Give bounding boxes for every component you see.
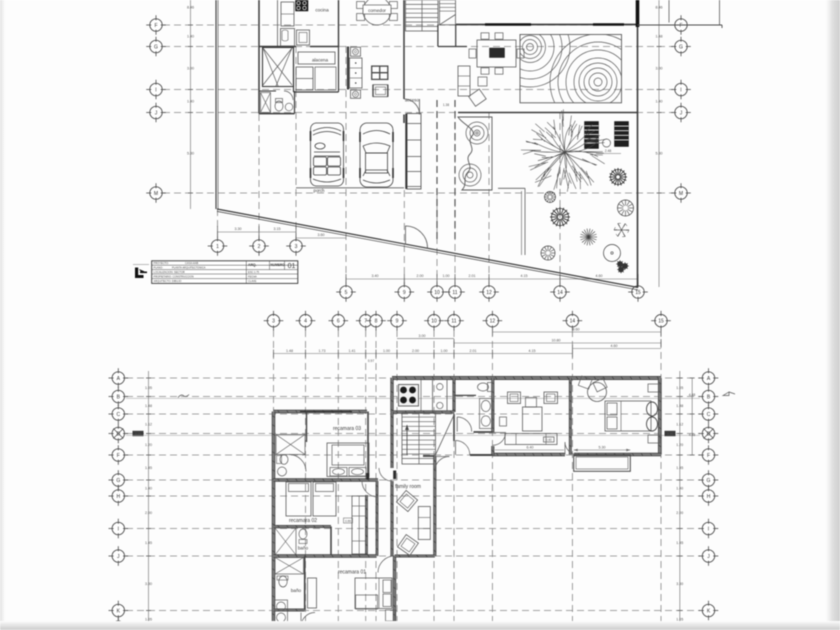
bottom plan grid row C line	[126, 413, 700, 415]
closet room wall	[263, 48, 294, 87]
armchairs right	[647, 402, 658, 416]
top plan grid column 3 line	[295, 46, 297, 240]
reca02 beds	[286, 482, 311, 516]
stairs diagonal	[436, 414, 455, 455]
svg-text:14: 14	[557, 290, 563, 296]
svg-text:NUMERO: NUMERO	[271, 263, 286, 267]
sun lounger 2	[615, 122, 629, 147]
top plan grid column 9 line	[403, 190, 405, 286]
top plan dimension 3-5	[296, 237, 346, 239]
svg-text:1: 1	[216, 244, 219, 250]
comedor label box	[363, 5, 391, 14]
bottom plan grid column 4 line	[305, 330, 307, 630]
reca03 bath door arc	[289, 455, 306, 472]
bano02 toilet	[299, 529, 307, 539]
bottom plan grid row F right bubble	[699, 445, 719, 465]
garden plant h	[614, 223, 629, 236]
svg-text:H: H	[707, 494, 711, 500]
svg-text:H: H	[116, 494, 120, 500]
0.40 box	[544, 437, 555, 442]
kitchen left wall	[391, 378, 394, 412]
hall door arc	[455, 441, 457, 455]
family room right wall	[434, 456, 436, 556]
top plan grid column 10 line	[436, 193, 438, 286]
svg-text:10.80: 10.80	[552, 339, 561, 343]
bottom plan grid row H line	[126, 495, 700, 497]
top plan bottom dimension line 5-15	[346, 278, 638, 280]
planter plant 2	[467, 172, 473, 178]
car convertible wheels	[310, 131, 312, 141]
roof outline top right	[668, 0, 670, 23]
bottom plan grid row A right bubble	[699, 368, 719, 388]
svg-text:2.00: 2.00	[412, 349, 419, 353]
svg-text:CASA-HAB: CASA-HAB	[185, 261, 199, 265]
svg-text:G: G	[116, 478, 120, 484]
bottom plan grid row C right bubble	[699, 404, 719, 424]
top plan grid column 2 bubble	[249, 236, 269, 256]
svg-text:D: D	[707, 431, 711, 437]
hall wall grid11 segment	[453, 414, 455, 441]
reca02 closet	[352, 496, 367, 554]
sofa side table bottom	[351, 90, 361, 98]
svg-text:PLANO:: PLANO:	[154, 265, 164, 269]
svg-text:4.48: 4.48	[689, 433, 696, 437]
top wall window segments	[485, 23, 531, 26]
bottom plan grid column 11 line	[453, 330, 455, 630]
section flag right	[723, 392, 735, 396]
svg-text:7: 7	[364, 319, 367, 325]
pool	[574, 455, 631, 471]
bottom plan grid row D right bubble	[699, 424, 719, 444]
kitchen divider wall	[277, 0, 279, 47]
svg-text:2.00: 2.00	[145, 511, 152, 515]
top plan grid row I right bubble	[671, 80, 691, 100]
row J wall	[274, 555, 377, 558]
svg-text:2.00: 2.00	[676, 511, 683, 515]
top plan grid column 14 line	[559, 112, 561, 286]
svg-text:1.20: 1.20	[676, 443, 683, 447]
svg-text:D: D	[116, 431, 120, 437]
corridor door arc	[379, 468, 392, 481]
bottom plan grid column 8 line	[375, 330, 377, 630]
corridor left wall grid8	[376, 481, 378, 556]
top plan grid column 14 bubble	[550, 282, 570, 302]
kitchen bottom wall	[392, 411, 454, 414]
bottom plan grid row D line	[126, 433, 700, 435]
svg-text:PLANTA ARQUITECTONICA: PLANTA ARQUITECTONICA	[172, 265, 206, 269]
svg-text:1.00: 1.00	[441, 349, 448, 353]
kitchen counter	[281, 29, 295, 47]
stairs landing cross	[440, 0, 456, 25]
bath right wall	[492, 378, 494, 433]
comedor table	[363, 0, 391, 25]
svg-text:4.15: 4.15	[521, 274, 528, 278]
kitchen divider wall 11	[453, 378, 455, 412]
bottom plan grid row D left bubble	[109, 424, 129, 444]
bottom plan 3.20 marker right	[665, 431, 676, 436]
bathroom A door arc	[284, 91, 293, 100]
svg-text:M: M	[679, 191, 683, 197]
top plan grid row G line	[163, 46, 673, 48]
reca03 bottom wall	[274, 479, 379, 482]
svg-text:5.30: 5.30	[599, 446, 606, 450]
bottom plan grid row K right bubble	[699, 601, 719, 621]
svg-text:alacena: alacena	[312, 58, 329, 63]
top plan grid column 2 line	[258, 114, 260, 240]
garden plant g	[618, 200, 634, 216]
bottom plan grid row F line	[126, 454, 700, 456]
reca01 door arc bottom	[301, 613, 315, 627]
terrace dim 6.40	[495, 449, 564, 451]
top plan grid row M right bubble	[671, 183, 691, 203]
alacena shelf unit	[296, 67, 313, 90]
bottom plan grid row K line	[126, 610, 700, 612]
terrace dim 5.30	[574, 449, 631, 451]
planter plant 1	[474, 130, 480, 136]
right wing bottom wall	[492, 453, 565, 456]
bottom plan grid column 14 bubble	[563, 311, 583, 331]
pane table	[372, 66, 388, 79]
bottom plan grid row J right bubble	[699, 546, 719, 566]
svg-text:porch: porch	[314, 188, 326, 193]
top plan grid row J line	[163, 112, 673, 114]
lounger dim 2.48	[596, 153, 621, 155]
stairs lower plan	[402, 413, 436, 465]
bano01 toilet	[279, 576, 287, 587]
alacena room walls	[293, 47, 295, 93]
svg-text:1.45: 1.45	[145, 466, 152, 470]
bottom plan grid column 8 bubble	[366, 311, 386, 331]
small table	[373, 85, 388, 97]
svg-text:6: 6	[337, 319, 340, 325]
garden plant c	[580, 229, 597, 246]
bottom plan left dimension line	[148, 371, 150, 630]
wc toilet	[478, 383, 489, 391]
entry gate fence	[407, 114, 421, 190]
bottom plan grid column 15 line	[660, 330, 662, 630]
svg-text:1.40: 1.40	[656, 100, 663, 104]
bano02 shower	[275, 528, 296, 555]
car convertible	[311, 123, 344, 186]
svg-text:4.48: 4.48	[689, 393, 696, 397]
hall bottom wall segment	[470, 454, 493, 456]
bottom plan grid column 9 line	[396, 330, 398, 630]
living partition	[569, 378, 571, 455]
living wall grid5	[347, 47, 349, 90]
svg-text:ARQ.: ARQ.	[248, 263, 257, 267]
sofa side table top	[351, 47, 361, 56]
bottom plan grid column 4 bubble	[296, 311, 316, 331]
svg-text:1.45: 1.45	[145, 541, 152, 545]
svg-text:3: 3	[272, 319, 275, 325]
garden plant i	[616, 260, 629, 273]
bano01 wall	[304, 556, 306, 610]
kitchen fridge	[281, 2, 294, 26]
top plan grid column 12 bubble	[479, 282, 499, 302]
svg-text:recamara 03: recamara 03	[333, 426, 361, 432]
bottom plan grid row B right bubble	[699, 387, 719, 407]
svg-text:1.05: 1.05	[676, 617, 683, 621]
family room door arc	[435, 457, 450, 472]
svg-text:1.48: 1.48	[286, 349, 293, 353]
bottom edge gray band	[0, 621, 840, 630]
bottom plan grid row A left bubble	[109, 368, 129, 388]
svg-text:C: C	[707, 412, 711, 418]
bottom plan grid row G line	[126, 479, 700, 481]
garden feature spirals	[490, 7, 646, 130]
svg-text:ARQUITECTO: DIBUJO: ARQUITECTO: DIBUJO	[154, 279, 182, 283]
door jamb family room	[393, 471, 396, 480]
svg-text:G: G	[707, 478, 711, 484]
svg-text:3.60: 3.60	[318, 233, 325, 237]
bano01 shower	[275, 558, 304, 575]
svg-text:0.86: 0.86	[345, 519, 351, 523]
svg-text:3.15: 3.15	[274, 227, 281, 231]
bano02 wall	[274, 525, 332, 527]
svg-text:1.73: 1.73	[319, 349, 326, 353]
kitchen right wall	[338, 0, 340, 47]
living door arc	[493, 433, 506, 446]
bottom plan right dimension line	[679, 371, 681, 630]
svg-text:F: F	[154, 23, 157, 29]
svg-text:1.48: 1.48	[656, 35, 663, 39]
top plan grid row J left bubble	[146, 103, 166, 123]
bottom plan grid row C left bubble	[109, 404, 129, 424]
svg-text:I: I	[708, 526, 709, 532]
svg-text:1.45: 1.45	[676, 466, 683, 470]
right wing right wall	[658, 378, 661, 455]
closet kite cross	[263, 48, 292, 86]
svg-text:3.00: 3.00	[187, 67, 194, 71]
bottom plan grid row I left bubble	[109, 519, 129, 539]
svg-text:PROPIETARIO: CONSTRUCCION: PROPIETARIO: CONSTRUCCION	[154, 274, 194, 278]
svg-text:1.05: 1.05	[676, 386, 683, 390]
svg-text:1.20: 1.20	[145, 443, 152, 447]
svg-text:3.20: 3.20	[667, 432, 674, 436]
bottom plan grid row A line	[126, 377, 700, 379]
bottom plan top dims	[492, 331, 661, 333]
svg-text:ESC 1:75: ESC 1:75	[248, 270, 260, 274]
reca01 door arc	[378, 556, 395, 573]
top plan grid column 10 bubble	[427, 282, 447, 302]
svg-text:3.30: 3.30	[676, 582, 683, 586]
top plan grid row G left bubble	[146, 37, 166, 57]
reca01 bench	[356, 595, 378, 609]
section line row D	[126, 434, 700, 436]
svg-text:1.05: 1.05	[145, 617, 152, 621]
svg-text:10: 10	[431, 319, 437, 325]
svg-text:acceso: acceso	[405, 98, 419, 103]
svg-text:1.41: 1.41	[349, 349, 356, 353]
kitchen cabinet line	[420, 378, 422, 412]
reca03 bath divider	[306, 412, 308, 443]
bottom plan 3.20 marker left	[133, 431, 144, 436]
bottom plan grid row F left bubble	[109, 445, 129, 465]
living chairs	[508, 392, 521, 404]
top plan grid column 5 line	[345, 46, 347, 286]
top plan grid row F right bubble	[671, 15, 691, 35]
bottom plan small dims row	[274, 353, 573, 355]
right edge gray band	[826, 0, 840, 630]
svg-text:2: 2	[258, 244, 261, 250]
architect logo	[135, 268, 147, 279]
left property wall	[215, 0, 217, 209]
garden feature panel	[520, 35, 622, 103]
svg-text:LOCALIZACION: SECTOR: LOCALIZACION: SECTOR	[154, 270, 185, 274]
bano01 sinks	[275, 600, 288, 626]
svg-text:8.60: 8.60	[573, 328, 580, 332]
svg-text:1.12: 1.12	[145, 422, 152, 426]
closet wall grid7	[366, 495, 368, 556]
svg-text:4.15: 4.15	[529, 349, 536, 353]
bottom wall door arc	[565, 442, 578, 455]
top plan right dimension line	[658, 0, 660, 287]
reca03 bath toilet	[280, 455, 288, 465]
bottom plan grid row B left bubble	[109, 387, 129, 407]
svg-text:11: 11	[452, 290, 457, 296]
right property wall	[637, 0, 639, 288]
svg-text:F: F	[707, 453, 710, 459]
svg-text:1.40: 1.40	[145, 486, 152, 490]
svg-text:15: 15	[658, 319, 664, 325]
top plan bottom dimension line 1-2-3	[218, 231, 297, 233]
landing room walls	[437, 25, 439, 47]
dining table set	[477, 40, 516, 67]
bottom plan grid column 6 bubble	[329, 311, 349, 331]
svg-text:F: F	[679, 23, 682, 29]
svg-text:1.40: 1.40	[187, 100, 194, 104]
acceso wall	[403, 0, 405, 99]
svg-text:4.60: 4.60	[596, 274, 603, 278]
svg-text:3.30: 3.30	[145, 582, 152, 586]
svg-text:I: I	[118, 526, 119, 532]
bottom plan grid column 7 line	[365, 330, 367, 630]
family chair 2	[398, 535, 419, 556]
svg-text:12: 12	[486, 290, 492, 296]
section squiggle left	[178, 395, 189, 398]
wall row G	[259, 46, 296, 48]
svg-text:baño: baño	[291, 588, 302, 593]
svg-text:3.40: 3.40	[372, 274, 379, 278]
svg-text:2.01: 2.01	[470, 349, 477, 353]
house block A left wall	[258, 0, 260, 114]
stairs upper	[406, 0, 439, 31]
kitchen sink cabinet	[297, 30, 310, 45]
reca01 closet	[308, 578, 317, 608]
bottom plan grid column 7 bubble	[356, 311, 376, 331]
garden plant e	[604, 245, 621, 262]
bottom plan grid row B line	[126, 396, 700, 398]
bottom plan grid row H left bubble	[109, 486, 129, 506]
top plan grid row J right bubble	[671, 103, 691, 123]
svg-text:3.30: 3.30	[235, 227, 242, 231]
svg-text:9: 9	[403, 290, 406, 296]
car sedan	[360, 123, 393, 187]
bottom plan grid row I line	[126, 528, 700, 530]
bathroom A sink	[285, 103, 293, 111]
bottom plan grid row I right bubble	[699, 519, 719, 539]
bottom plan grid row G right bubble	[699, 470, 719, 490]
bottom plan grid column 12 line	[491, 330, 493, 630]
dining round table	[588, 383, 607, 402]
top plan grid row G right bubble	[671, 37, 691, 57]
svg-text:5.30: 5.30	[187, 152, 194, 156]
bottom plan grid row L line	[126, 626, 700, 628]
top plan grid row I line	[163, 89, 673, 91]
garden plant b	[550, 207, 570, 227]
reca03 bed	[327, 443, 369, 477]
svg-text:4: 4	[304, 319, 307, 325]
corridor wall	[391, 412, 393, 468]
svg-text:1.48: 1.48	[676, 404, 683, 408]
family room bottom wall	[395, 555, 435, 557]
svg-text:comedor: comedor	[368, 8, 386, 13]
reca01 dresser	[386, 610, 396, 621]
bottom plan grid column 11 bubble	[444, 311, 464, 331]
svg-text:2.48: 2.48	[605, 149, 612, 153]
bottom plan grid column 3 line	[273, 330, 275, 630]
svg-text:baño: baño	[298, 546, 309, 551]
acceso door arc	[404, 99, 420, 115]
top plan grid row I left bubble	[146, 80, 166, 100]
dim 0.86 box	[344, 518, 353, 523]
top plan grid column 3 bubble	[286, 236, 306, 256]
kitchen stove 4 burners	[399, 385, 419, 407]
top plan grid row M line	[163, 192, 673, 194]
bottom plan grid column 6 line	[337, 330, 339, 630]
reca01 right wall	[393, 556, 396, 630]
paving corner lines	[498, 187, 525, 189]
garden planter wavy	[458, 117, 492, 190]
bedroom suite bed	[605, 401, 651, 431]
title block	[152, 261, 298, 284]
bathroom A toilet	[275, 101, 283, 111]
kitchen stove	[296, 0, 309, 11]
svg-text:cocina: cocina	[315, 8, 329, 13]
svg-text:I: I	[155, 87, 156, 93]
reca03 bath shower	[276, 435, 305, 455]
top wall right wing	[392, 376, 661, 379]
svg-text:1.12: 1.12	[676, 422, 683, 426]
bathroom A walls	[294, 91, 296, 114]
svg-text:1.40: 1.40	[187, 35, 194, 39]
wc sink ovals	[480, 399, 493, 429]
svg-text:1.48: 1.48	[145, 404, 152, 408]
svg-text:1.00: 1.00	[383, 349, 390, 353]
car sedan wheels	[359, 132, 361, 142]
top plan grid column 9 bubble	[395, 282, 415, 302]
svg-text:9: 9	[396, 319, 399, 325]
svg-text:1.38: 1.38	[443, 103, 449, 107]
porch edge line	[296, 187, 404, 189]
bottom plan grid row J left bubble	[109, 546, 129, 566]
bottom plan grid row K left bubble	[109, 601, 129, 621]
dark grid dashes 10 11	[436, 100, 438, 240]
living sofa	[505, 434, 557, 445]
bottom plan grid row L left bubble	[109, 617, 129, 630]
reca02 door arc	[362, 481, 378, 497]
bottom plan grid column 9 bubble	[387, 311, 407, 331]
bath bottom wall	[474, 431, 493, 433]
section line row B	[126, 397, 700, 399]
garden plant f	[609, 168, 627, 186]
reca01 bed	[355, 578, 392, 609]
svg-text:family room: family room	[395, 484, 421, 490]
svg-text:1.00: 1.00	[443, 274, 450, 278]
svg-text:C: C	[116, 412, 120, 418]
top plan grid column 5 bubble	[336, 282, 356, 302]
kitchen island sink	[433, 380, 448, 412]
